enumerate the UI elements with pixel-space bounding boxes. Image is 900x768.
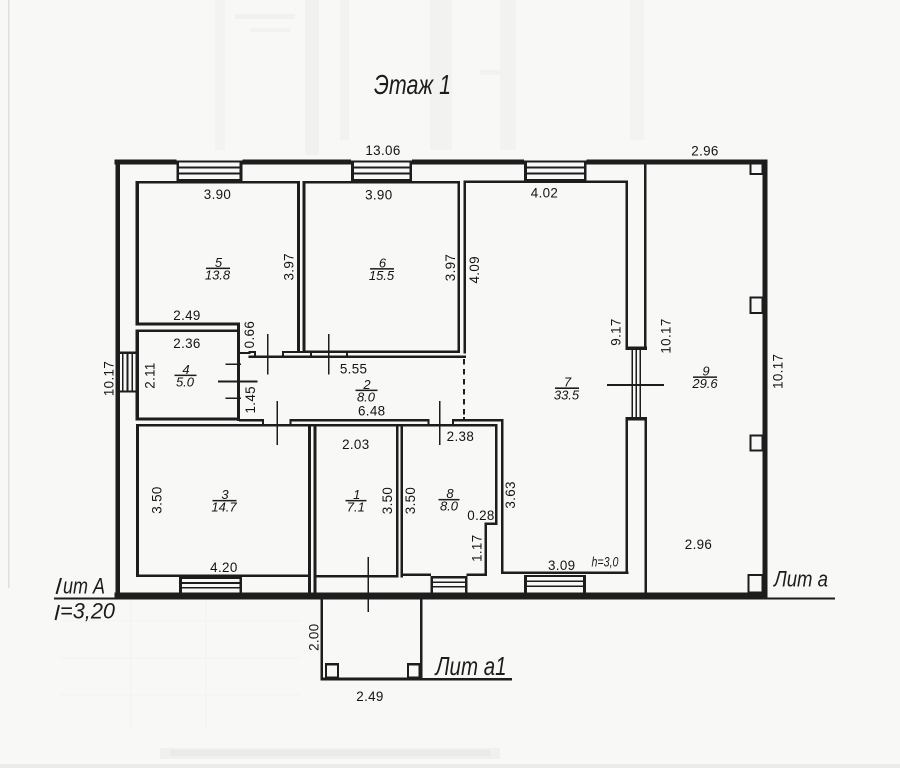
room 9 label — [691, 364, 718, 392]
faint top streaks — [215, 0, 225, 150]
svg-text:10.17: 10.17 — [102, 361, 117, 396]
room 6 bottom wall — [303, 350, 461, 353]
outer right wall — [763, 160, 768, 598]
svg-text:5.0: 5.0 — [176, 374, 195, 389]
room 3 right wall — [308, 424, 311, 593]
outer bottom wall — [115, 592, 368, 597]
svg-text:3.97: 3.97 — [282, 253, 297, 280]
window bottom wall room 7 — [524, 575, 586, 592]
room 8 left wall — [401, 424, 404, 578]
porch post right — [408, 664, 420, 677]
wall 7-9 right line lower — [644, 420, 647, 592]
corridor bottom upper line segment 2 — [291, 419, 429, 421]
svg-text:13.06: 13.06 — [365, 143, 400, 158]
wall 7-9 right line upper — [644, 162, 647, 347]
porch bottom wall — [320, 678, 422, 681]
room 5 bottom wall — [136, 323, 240, 326]
corridor top wall lower line — [249, 355, 467, 358]
room 5 label — [205, 255, 231, 283]
svg-text:5.55: 5.55 — [340, 362, 367, 377]
door stroke corridor to room 3 — [276, 401, 278, 445]
door tick room 4 lower — [225, 397, 241, 399]
svg-text:4.20: 4.20 — [210, 560, 237, 575]
window bottom wall room 8 — [430, 576, 467, 592]
room 7 bottom wall — [501, 572, 628, 575]
room 1 right wall — [396, 424, 399, 578]
window top wall room 6 — [351, 160, 412, 181]
porch right wall — [420, 597, 423, 681]
door stroke corridor to room 5 side — [267, 334, 269, 375]
room 5 left wall — [136, 181, 139, 326]
window top wall section 4.02 — [524, 160, 586, 181]
door stroke room 7 to room 9 — [607, 384, 664, 386]
svg-text:2.03: 2.03 — [342, 437, 369, 452]
door stroke entrance porch — [367, 557, 369, 612]
Lit A label — [57, 574, 106, 599]
corridor top door cap 2 — [282, 351, 284, 358]
bottom edge band — [0, 764, 900, 768]
porch post left — [326, 664, 338, 677]
svg-text:7.1: 7.1 — [347, 500, 365, 515]
svg-text:3.50: 3.50 — [403, 487, 418, 514]
svg-text:2.96: 2.96 — [691, 144, 718, 159]
room 1 bottom wall — [314, 575, 399, 578]
room 7 left wall — [501, 421, 504, 574]
svg-text:29.6: 29.6 — [691, 376, 718, 391]
room 4 left wall — [136, 329, 139, 420]
rooms 1 and 8 top wall — [311, 424, 498, 427]
door stroke corridor to room 6 — [328, 334, 330, 375]
svg-text:2.36: 2.36 — [173, 336, 200, 351]
room 7 label — [554, 375, 580, 403]
svg-text:Лит а1: Лит а1 — [434, 651, 507, 681]
svg-text:10.17: 10.17 — [771, 354, 786, 389]
svg-text:33.5: 33.5 — [554, 387, 580, 402]
door tick room 4 upper — [225, 363, 241, 365]
room 5 top wall — [136, 181, 300, 184]
ground line full — [54, 598, 835, 600]
faint top-left marks — [235, 14, 295, 19]
svg-text:3.50: 3.50 — [380, 487, 395, 514]
corridor bottom door cap 4 — [452, 419, 454, 426]
svg-text:3.90: 3.90 — [204, 187, 231, 202]
svg-text:1.17: 1.17 — [470, 534, 485, 561]
dashed line corridor-room7 — [463, 359, 465, 364]
svg-text:=3,20: =3,20 — [60, 599, 116, 624]
room 5 right wall — [297, 181, 300, 353]
room 8 notch jog — [485, 523, 498, 525]
svg-text:10.17: 10.17 — [659, 318, 674, 353]
corridor bottom door cap 3 — [428, 419, 430, 426]
scan edge faint vertical line — [8, 0, 10, 588]
svg-text:3.63: 3.63 — [503, 481, 518, 508]
outer top wall segment 1 — [115, 160, 177, 165]
svg-text:2.00: 2.00 — [306, 623, 321, 650]
corridor top door cap 3 — [310, 351, 312, 358]
room 3 top wall — [136, 424, 311, 427]
room 4 label — [175, 362, 197, 390]
svg-text:Лит а: Лит а — [772, 567, 828, 592]
svg-text:3.09: 3.09 — [548, 558, 575, 573]
room 1 label — [346, 487, 367, 514]
svg-text:4.02: 4.02 — [531, 186, 558, 201]
corridor bottom door cap 2 — [290, 419, 292, 426]
svg-text:2.49: 2.49 — [356, 689, 383, 704]
corridor top door cap 1 — [254, 351, 256, 358]
door stroke corridor to room 8 — [439, 401, 441, 445]
corridor top wall upper line segment 2 — [283, 351, 311, 353]
outer left wall — [115, 160, 120, 598]
svg-text:2.11: 2.11 — [143, 362, 158, 388]
corridor bottom door cap 1 — [262, 419, 264, 426]
outer top wall segment 4 — [587, 160, 768, 165]
door stroke room 4 to corridor — [218, 381, 258, 383]
corridor top-left jog — [237, 352, 251, 354]
outer top wall segment 3 — [412, 160, 524, 165]
faint ghost grid bottom-left — [60, 620, 300, 621]
room 8 label — [439, 486, 460, 513]
svg-text:ит А: ит А — [63, 574, 105, 599]
room 6 top wall — [303, 181, 461, 184]
room 8 bottom wall right segment — [466, 574, 487, 576]
svg-text:14.7: 14.7 — [211, 500, 237, 515]
svg-text:Этаж 1: Этаж 1 — [374, 69, 451, 100]
room 8 right wall lower — [485, 523, 487, 576]
corridor bottom upper line segment 1 — [239, 419, 263, 421]
svg-text:0.28: 0.28 — [467, 508, 494, 523]
wall between room 4 and corridor — [237, 323, 240, 422]
corridor top door cap 4 — [346, 351, 348, 358]
svg-text:1.45: 1.45 — [243, 386, 258, 413]
=3,20 label — [56, 599, 116, 624]
room 6 label — [369, 255, 395, 283]
room 4 bottom wall — [136, 418, 240, 421]
svg-text:15.5: 15.5 — [369, 268, 395, 283]
window bottom wall room 3 — [179, 577, 242, 592]
room 9 pilaster 3 — [751, 436, 763, 451]
svg-text:8.0: 8.0 — [357, 389, 376, 404]
outer top wall segment 2 — [242, 160, 351, 165]
window top wall room 5 — [177, 160, 243, 181]
room 6 right wall — [458, 181, 461, 353]
room 9 pilaster 1 — [751, 164, 763, 175]
room 3 bottom wall — [136, 575, 311, 578]
room 9 pilaster 4 — [749, 575, 763, 592]
outer bottom wall right of entrance — [369, 592, 767, 597]
porch left wall — [320, 597, 323, 681]
wall 7-9 left line upper — [626, 180, 629, 346]
svg-text:3.50: 3.50 — [150, 486, 165, 513]
corridor bottom upper line segment 3 — [453, 419, 504, 421]
svg-text:3.97: 3.97 — [443, 254, 458, 281]
room 9 pilaster 2 — [751, 297, 763, 313]
room 6 left wall — [303, 181, 306, 353]
room 8 right wall upper — [495, 424, 498, 525]
svg-text:8.0: 8.0 — [440, 499, 459, 514]
svg-text:2.49: 2.49 — [173, 308, 200, 323]
ghost text band bottom — [160, 748, 500, 759]
svg-text:9.17: 9.17 — [609, 318, 624, 345]
section 4.02 left wall — [463, 180, 466, 353]
porch ground line to Lit a1 — [423, 678, 513, 680]
room 2 label — [356, 377, 378, 405]
window left wall room 4 — [118, 352, 137, 393]
room 4 top wall — [136, 329, 240, 332]
svg-text:h=3,0: h=3,0 — [592, 554, 619, 570]
hatch duct in wall 7-9 — [626, 347, 647, 421]
section 4.02 top line — [463, 180, 627, 183]
room 1 left wall — [314, 424, 317, 593]
room 3 label — [211, 487, 237, 514]
svg-text:6.48: 6.48 — [358, 404, 385, 419]
wall 7-9 left line lower — [626, 420, 628, 573]
svg-text:2.38: 2.38 — [447, 429, 474, 444]
svg-text:13.8: 13.8 — [205, 267, 231, 282]
room 3 left wall — [136, 424, 139, 577]
svg-text:4.09: 4.09 — [467, 256, 482, 283]
room 8 bottom wall left segment — [401, 574, 431, 576]
svg-text:3.90: 3.90 — [365, 187, 392, 202]
corridor top wall upper line segment 1 — [249, 351, 255, 353]
svg-text:0.66: 0.66 — [242, 321, 257, 348]
svg-text:2.96: 2.96 — [685, 537, 712, 552]
